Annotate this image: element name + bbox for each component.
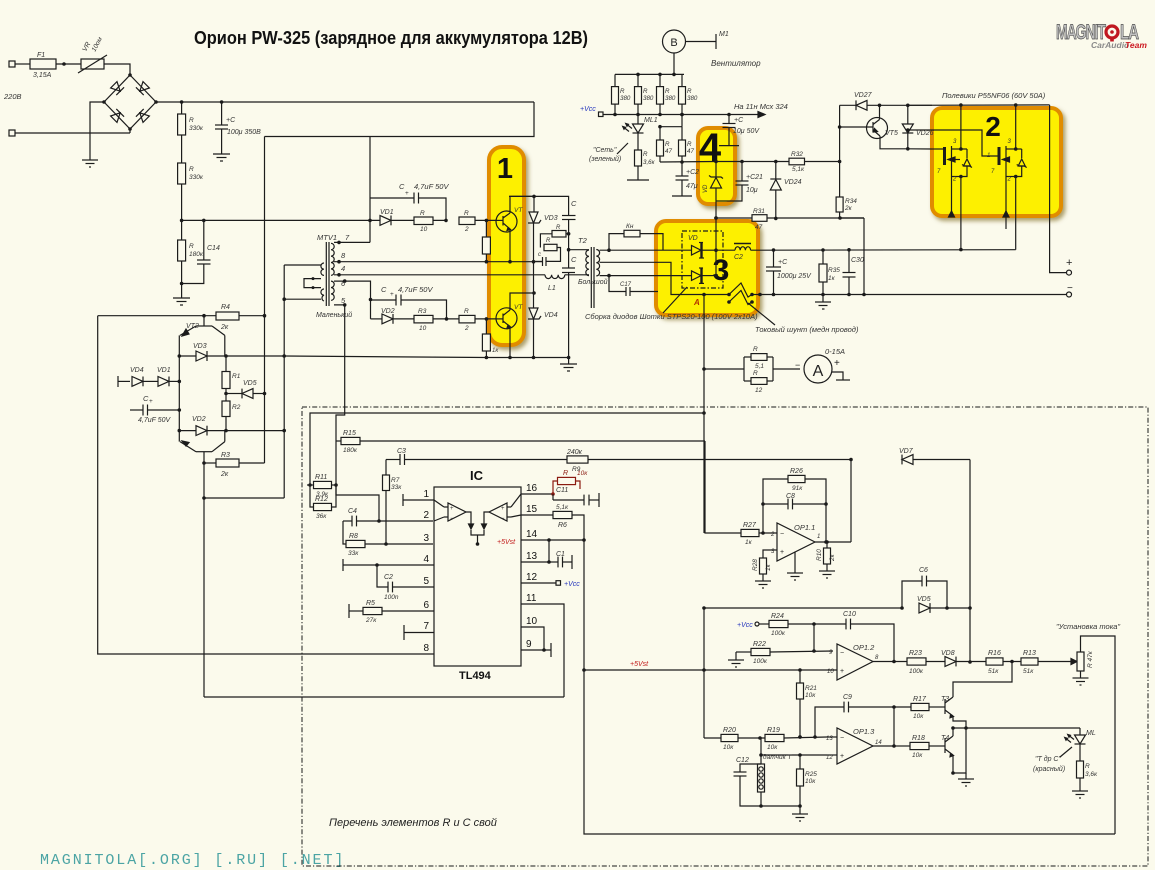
svg-text:С2: С2 <box>734 254 743 261</box>
resistor R 180k <box>178 240 186 261</box>
svg-text:R2: R2 <box>232 404 241 411</box>
svg-text:R32: R32 <box>791 151 803 158</box>
mosfet VT7 <box>906 128 1027 182</box>
shunt meter resistors R 5,1 / R 12 <box>704 346 800 394</box>
svg-text:"Т др С": "Т др С" <box>1035 755 1061 763</box>
svg-text:ML: ML <box>1086 730 1096 737</box>
resistor R11 3,9k <box>307 474 338 498</box>
transistor VT4 lower <box>496 293 534 359</box>
svg-text:+: + <box>1066 257 1072 269</box>
svg-text:R8: R8 <box>349 533 358 540</box>
wire output up to R9 line <box>850 460 852 543</box>
wire primary bottom <box>586 274 589 276</box>
svg-text:+: + <box>390 291 394 298</box>
svg-text:6: 6 <box>423 600 429 611</box>
diode VD4 <box>130 367 158 386</box>
svg-text:Токовый шунт (медн провод): Токовый шунт (медн провод) <box>755 325 859 334</box>
+Vcc terminal OP1.2 <box>737 622 769 629</box>
svg-text:Кн: Кн <box>626 223 634 230</box>
node source bus to box2 <box>959 248 963 252</box>
svg-text:VD4: VD4 <box>544 312 558 319</box>
node <box>368 219 372 223</box>
ground rail bottom OP1.3 <box>792 814 808 821</box>
svg-text:MAGNITOLA[.ORG] [.RU] [.NET]: MAGNITOLA[.ORG] [.RU] [.NET] <box>40 852 345 869</box>
svg-text:(красный): (красный) <box>1033 765 1065 773</box>
op-amp OP1.2 <box>827 643 879 680</box>
resistor R47 b <box>679 127 695 162</box>
svg-text:Сборка диодов Шотки STPS20-100: Сборка диодов Шотки STPS20-100 (100V 2х1… <box>585 312 758 321</box>
bar ground C2 <box>672 195 692 197</box>
resistor R9 240k <box>566 449 851 473</box>
svg-text:R 47к: R 47к <box>1087 650 1094 668</box>
node collector <box>532 195 536 199</box>
pin1 stub <box>403 494 434 506</box>
wire pin12 line <box>761 754 827 756</box>
capacitor C17 loop <box>609 276 658 296</box>
highlight box 1 <box>489 147 524 345</box>
svg-text:VD1: VD1 <box>157 367 171 374</box>
comparators inside <box>434 494 521 544</box>
wire R16/R13 node down to T3 <box>953 662 1012 698</box>
svg-text:180к: 180к <box>189 251 204 258</box>
svg-text:47μ: 47μ <box>686 183 698 190</box>
svg-text:Орион PW-325 (зарядное для акк: Орион PW-325 (зарядное для аккумулятора … <box>194 28 588 48</box>
callout diagonal <box>663 287 687 313</box>
svg-text:R: R <box>546 238 551 244</box>
zener VD24 <box>770 160 801 219</box>
svg-text:380: 380 <box>620 95 631 102</box>
svg-text:TL494: TL494 <box>459 670 492 682</box>
ground LED <box>1072 791 1088 798</box>
svg-text:2: 2 <box>952 177 957 183</box>
svg-text:100к: 100к <box>753 658 768 665</box>
resistor R35 1k <box>819 248 840 302</box>
svg-text:Полевики P55NF06 (60V 50А): Полевики P55NF06 (60V 50А) <box>942 91 1046 100</box>
svg-text:VD24: VD24 <box>784 179 802 186</box>
svg-text:VD1: VD1 <box>380 209 394 216</box>
zener VD3 <box>528 196 558 263</box>
resistor R15 180k <box>336 430 360 485</box>
svg-text:VD2: VD2 <box>192 416 206 423</box>
svg-text:VD: VD <box>688 235 698 242</box>
svg-text:33к: 33к <box>391 484 402 491</box>
diode VD27 <box>840 92 932 110</box>
ground rail <box>560 358 577 372</box>
svg-text:2к: 2к <box>220 324 229 331</box>
svg-text:VD3: VD3 <box>193 343 207 350</box>
svg-text:12: 12 <box>826 755 833 761</box>
ground below R35 <box>815 302 831 309</box>
transistor VT1 <box>496 196 534 261</box>
terminal minus <box>1067 292 1072 297</box>
cathode bus <box>715 218 717 276</box>
resistor R17 10k <box>894 696 945 720</box>
resistor R1 <box>222 372 230 389</box>
svg-text:10к: 10к <box>912 752 923 759</box>
transformer MTV1 <box>316 233 352 319</box>
svg-text:5,1к: 5,1к <box>556 504 569 511</box>
resistor R8 33k <box>343 521 433 557</box>
resistor R20 10k <box>704 727 765 751</box>
capacitor C6 <box>902 567 947 608</box>
svg-text:C30: C30 <box>851 257 864 264</box>
svg-text:0-15А: 0-15А <box>825 347 845 356</box>
svg-text:51к: 51к <box>988 668 999 675</box>
wire emitter column left <box>178 335 180 441</box>
svg-text:2к: 2к <box>844 205 853 212</box>
wire T3/T4 junction ground <box>953 728 966 773</box>
svg-text:(зеленый): (зеленый) <box>589 155 621 163</box>
wire VD1 feed line <box>182 219 380 221</box>
svg-text:−: − <box>795 360 800 370</box>
resistor R4 2k <box>216 312 239 320</box>
svg-text:5: 5 <box>423 576 429 587</box>
svg-text:R31: R31 <box>753 208 765 215</box>
capacitor C11 <box>553 487 599 507</box>
svg-text:27к: 27к <box>365 617 377 624</box>
svg-text:VT: VT <box>514 207 523 214</box>
resistor R25 10k <box>761 755 817 814</box>
svg-text:14: 14 <box>526 529 538 540</box>
wire secondary bottom to box3 <box>600 275 691 277</box>
svg-text:VD27: VD27 <box>854 92 873 99</box>
wire R11 node to pin2 <box>336 485 379 521</box>
svg-text:С3: С3 <box>397 448 406 455</box>
output wire OP1.1 <box>815 541 851 543</box>
svg-text:2: 2 <box>985 111 1001 142</box>
ground opamp1 <box>787 573 803 580</box>
svg-text:R: R <box>189 243 194 250</box>
capacitor C snubber bottom right <box>562 250 577 360</box>
output OP1.2 <box>873 661 907 663</box>
callout <box>617 143 628 154</box>
diode VD3 (driver) <box>178 343 228 361</box>
wire minus bus <box>758 294 1066 296</box>
sense wire top edge <box>310 413 704 485</box>
svg-text:15: 15 <box>526 504 538 515</box>
vertical base feed <box>839 105 841 161</box>
wire plus terminal <box>1050 216 1066 273</box>
capacitor C21 10u <box>716 160 763 201</box>
node <box>485 219 489 223</box>
svg-text:R18: R18 <box>912 735 925 742</box>
svg-text:R: R <box>643 151 648 158</box>
node <box>180 282 184 286</box>
wire HV down and left bus <box>265 102 535 137</box>
Vcc bus <box>603 114 758 116</box>
svg-text:ОР1.2: ОР1.2 <box>853 643 875 652</box>
ground <box>213 154 230 161</box>
terminal L input <box>9 61 15 67</box>
svg-text:7: 7 <box>423 621 429 632</box>
resistor R 10 <box>414 217 433 225</box>
svg-text:9: 9 <box>526 639 532 650</box>
capacitor C10 <box>814 611 894 661</box>
svg-text:R7: R7 <box>391 477 400 484</box>
svg-text:91к: 91к <box>792 485 803 492</box>
svg-text:R25: R25 <box>805 771 817 778</box>
svg-text:R: R <box>753 370 758 377</box>
svg-text:R28: R28 <box>752 559 759 571</box>
svg-text:CarAudio: CarAudio <box>1091 40 1129 50</box>
svg-text:Маленький: Маленький <box>316 311 352 319</box>
svg-text:VD7: VD7 <box>899 448 914 455</box>
svg-text:4: 4 <box>341 264 345 273</box>
svg-text:1к: 1к <box>765 563 772 571</box>
svg-text:47: 47 <box>755 224 763 231</box>
svg-text:VD: VD <box>703 184 709 193</box>
svg-text:С10: С10 <box>843 611 856 618</box>
wire <box>15 132 130 134</box>
svg-text:10μ: 10μ <box>746 187 758 194</box>
pin9 wire <box>521 649 551 651</box>
output choke <box>716 244 751 262</box>
resistor R 3,6k <box>635 150 656 180</box>
svg-text:R23: R23 <box>909 650 922 657</box>
svg-text:R16: R16 <box>988 650 1001 657</box>
svg-text:2: 2 <box>423 510 429 521</box>
svg-text:А: А <box>813 363 824 380</box>
svg-text:12: 12 <box>755 387 763 394</box>
svg-text:−: − <box>1067 283 1073 294</box>
svg-text:R1: R1 <box>232 373 241 380</box>
terminal plus <box>1067 270 1072 275</box>
svg-text:Team: Team <box>1125 40 1147 50</box>
svg-text:4: 4 <box>699 126 722 170</box>
svg-text:Большой: Большой <box>578 278 608 286</box>
svg-text:4,7uF 50V: 4,7uF 50V <box>414 182 449 191</box>
op-amp OP1.1 <box>770 523 820 573</box>
svg-text:М1: М1 <box>719 31 729 38</box>
svg-text:16: 16 <box>526 483 538 494</box>
diode schottky lower <box>692 271 702 281</box>
svg-text:+: + <box>149 398 153 405</box>
ammeter 0-15A <box>795 347 850 383</box>
svg-text:R: R <box>556 225 561 231</box>
svg-text:3: 3 <box>713 254 730 287</box>
resistor Kn loop <box>609 223 663 250</box>
LED ML red <box>1065 728 1096 761</box>
gate supply rail <box>660 161 716 164</box>
svg-text:10к: 10к <box>805 778 816 785</box>
svg-text:11: 11 <box>526 593 537 604</box>
thermistor datchik T <box>758 753 793 808</box>
fuse F1 3,15A <box>30 59 56 69</box>
node fuse-VR <box>62 62 66 66</box>
ground pot <box>1073 678 1089 685</box>
svg-text:С4: С4 <box>348 508 357 515</box>
svg-text:датчик Т: датчик Т <box>763 753 792 761</box>
resistor R16 51k <box>986 650 1021 675</box>
svg-text:4: 4 <box>423 554 429 565</box>
wire <box>181 261 183 298</box>
wire plus bus <box>751 249 1016 252</box>
mosfet VT6 <box>932 139 972 183</box>
diode VD1 <box>380 209 446 225</box>
transistor T4 <box>941 726 955 775</box>
svg-text:R20: R20 <box>723 727 736 734</box>
svg-text:47: 47 <box>665 148 672 155</box>
wire R15 to corner <box>360 440 705 442</box>
pin13 wire + C1 <box>521 540 572 569</box>
resistor R24 100k <box>769 613 816 637</box>
diode schottky upper <box>692 246 702 256</box>
diode VD2 (driver) <box>178 416 228 436</box>
inner dash-dot outline <box>682 231 723 288</box>
capacitor C snubber top right <box>509 196 577 249</box>
svg-text:10: 10 <box>419 325 427 332</box>
svg-text:1к: 1к <box>828 275 836 282</box>
svg-text:R11: R11 <box>315 474 327 481</box>
svg-text:R: R <box>464 210 469 217</box>
emitter resistor 1k upper <box>485 220 487 237</box>
snubber R upper <box>540 225 570 248</box>
svg-text:R26: R26 <box>790 468 803 475</box>
svg-text:+Vcc: +Vcc <box>580 106 596 113</box>
svg-text:C: C <box>571 199 577 208</box>
varistor VR 10om <box>81 59 104 69</box>
svg-text:R12: R12 <box>315 496 328 503</box>
svg-text:220В: 220В <box>3 92 22 101</box>
resistor R 330k lower <box>178 163 186 184</box>
svg-text:L1: L1 <box>548 285 556 292</box>
diode VD1 (driver) <box>157 367 181 386</box>
potentiometer R 47k <box>1077 636 1115 834</box>
svg-text:+: + <box>840 753 844 760</box>
svg-text:240к: 240к <box>566 449 583 456</box>
svg-text:+: + <box>780 549 784 556</box>
vertical drop from R34 to minus bus <box>863 218 865 295</box>
capacitor C9 <box>815 694 896 737</box>
svg-text:10: 10 <box>526 616 538 627</box>
svg-text:С6: С6 <box>919 567 928 574</box>
base resistor 1k lower <box>485 319 487 334</box>
svg-text:R: R <box>665 88 670 95</box>
svg-text:5,1к: 5,1к <box>792 166 805 173</box>
current shunt zigzag <box>704 294 729 296</box>
wire box2 sources down <box>960 178 962 250</box>
diode VD7 <box>899 448 970 464</box>
resistor R34 2k <box>836 162 864 219</box>
svg-text:Т2: Т2 <box>578 236 588 245</box>
svg-text:R35: R35 <box>828 267 840 274</box>
resistor R18 10k <box>910 735 945 759</box>
wire long left column to pin8 <box>98 316 433 654</box>
left winding taps <box>284 265 321 299</box>
bridge rectifier <box>102 73 158 133</box>
pin5 wire with C2 <box>377 565 434 601</box>
sense column right <box>969 460 971 663</box>
highlight box 4 <box>698 128 735 204</box>
arrow to Mcx324 <box>758 112 765 118</box>
svg-text:С12: С12 <box>736 757 749 764</box>
highlight box 3 <box>656 221 758 315</box>
transistor VT2 <box>180 316 225 336</box>
mosfet 2 drain drop <box>1015 105 1017 149</box>
svg-text:1: 1 <box>987 153 990 159</box>
capacitor C 100u 350V <box>215 102 261 154</box>
wire pin11 loop lower <box>204 696 564 698</box>
ground R22 <box>728 652 744 667</box>
svg-text:С2: С2 <box>384 574 393 581</box>
drain bus <box>908 104 1050 106</box>
resistor R 330k upper <box>181 102 183 114</box>
svg-text:+С: +С <box>226 117 236 124</box>
resistor R380 c <box>657 74 676 114</box>
wire pin5 to R15 <box>334 305 345 441</box>
svg-text:VD4: VD4 <box>130 367 144 374</box>
node divider tap <box>180 219 184 223</box>
svg-text:C: C <box>399 182 405 191</box>
svg-text:−: − <box>501 516 505 522</box>
resistor R23 100k <box>907 650 945 675</box>
svg-text:12: 12 <box>526 572 538 583</box>
svg-text:с: с <box>538 252 541 258</box>
svg-text:VD5: VD5 <box>243 380 257 387</box>
svg-text:ML1: ML1 <box>644 117 658 124</box>
svg-text:R13: R13 <box>1023 650 1036 657</box>
snubber R lower <box>544 238 561 261</box>
svg-text:R: R <box>753 346 758 353</box>
svg-text:MTV1: MTV1 <box>317 233 337 242</box>
bar ground <box>719 145 739 147</box>
svg-text:R6: R6 <box>558 522 567 529</box>
wire pin6 riser <box>334 281 371 319</box>
wire <box>181 184 183 240</box>
svg-text:R: R <box>620 88 625 95</box>
svg-text:+5Vst: +5Vst <box>630 661 649 668</box>
svg-text:3: 3 <box>423 533 429 544</box>
svg-text:R9: R9 <box>572 466 581 473</box>
svg-text:IC: IC <box>470 468 484 483</box>
wire VD3 line to right rail <box>226 355 284 357</box>
fan resistor bus <box>615 73 684 75</box>
highlight box 2 <box>932 108 1061 216</box>
op-amp OP1.3 <box>826 727 882 764</box>
svg-text:R: R <box>687 141 692 148</box>
HV bus wire <box>156 101 534 103</box>
svg-text:2: 2 <box>770 532 775 538</box>
node R1-R2 <box>225 389 227 402</box>
pin12 +Vcc <box>521 581 580 588</box>
svg-text:R15: R15 <box>343 430 356 437</box>
resistor R28 1k <box>752 550 772 581</box>
resistor R21 10k <box>797 670 818 739</box>
capacitor C12 <box>734 757 762 806</box>
svg-text:C: C <box>571 255 577 264</box>
resistor R5 27k pin6 <box>349 600 434 624</box>
node <box>772 248 776 252</box>
svg-text:"Сеть": "Сеть" <box>593 147 617 154</box>
svg-text:1000μ 25V: 1000μ 25V <box>777 273 812 280</box>
node <box>444 219 448 223</box>
terminal N input <box>9 130 15 136</box>
zener VD25 in box4 <box>703 162 723 219</box>
pin8 wire (long) <box>433 653 434 655</box>
svg-text:2к: 2к <box>829 553 836 562</box>
svg-text:330к: 330к <box>189 125 204 132</box>
ground R28 <box>755 581 771 588</box>
capacitor C 4,7uF 50V left <box>130 394 181 424</box>
svg-text:Вентилятор: Вентилятор <box>711 59 761 68</box>
svg-text:1: 1 <box>497 153 513 185</box>
pin7 stub <box>404 625 434 640</box>
svg-text:R: R <box>665 141 670 148</box>
inductor L1 <box>470 275 586 292</box>
resistor R19 10k <box>765 727 827 751</box>
resistor R32 5,1k <box>789 151 841 173</box>
svg-text:100μ 350В: 100μ 350В <box>227 129 261 136</box>
